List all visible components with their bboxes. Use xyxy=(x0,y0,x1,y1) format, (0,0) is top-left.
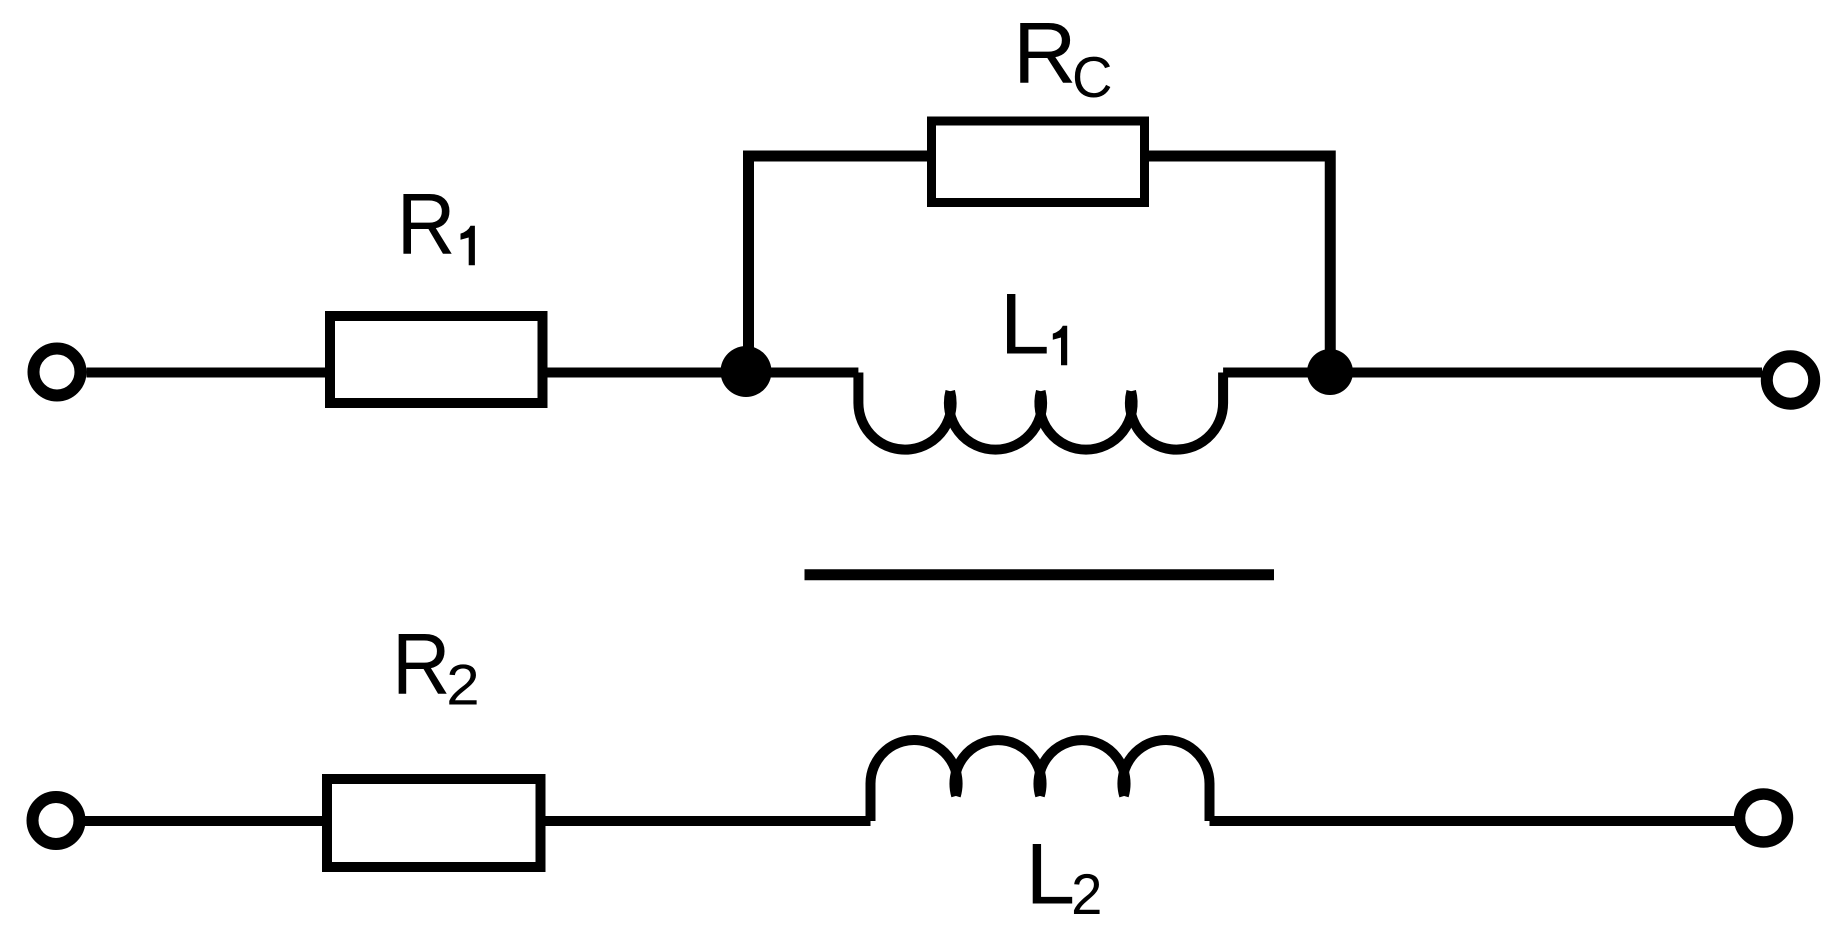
svg-text:L: L xyxy=(1000,277,1050,373)
svg-text:2: 2 xyxy=(446,653,479,717)
svg-text:R: R xyxy=(397,177,456,273)
svg-text:R: R xyxy=(392,617,451,713)
svg-text:C: C xyxy=(1072,46,1113,110)
svg-text:R: R xyxy=(1013,6,1077,102)
svg-text:2: 2 xyxy=(1071,863,1102,927)
svg-text:L: L xyxy=(1025,827,1075,923)
